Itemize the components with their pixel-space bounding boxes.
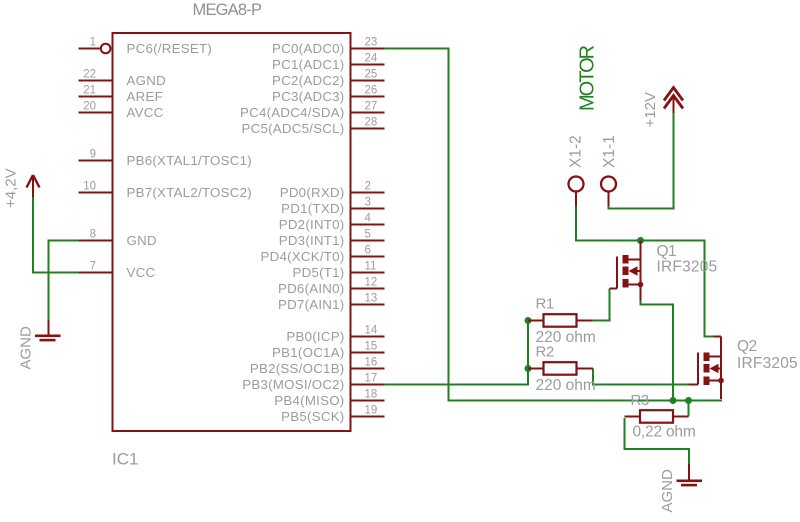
- svg-text:VCC: VCC: [127, 265, 156, 280]
- svg-text:PC4(ADC4/SDA): PC4(ADC4/SDA): [240, 105, 344, 120]
- svg-text:+4,2V: +4,2V: [3, 168, 20, 208]
- svg-text:24: 24: [365, 53, 378, 65]
- svg-text:PC3(ADC3): PC3(ADC3): [272, 89, 344, 104]
- svg-text:PD5(T1): PD5(T1): [293, 265, 345, 280]
- svg-text:0,22 ohm: 0,22 ohm: [633, 424, 696, 441]
- svg-text:15: 15: [365, 341, 378, 353]
- svg-text:12: 12: [365, 277, 378, 289]
- svg-text:R2: R2: [536, 344, 554, 361]
- svg-text:3: 3: [365, 197, 371, 209]
- svg-text:11: 11: [365, 261, 377, 273]
- svg-text:PC6(/RESET): PC6(/RESET): [127, 41, 213, 56]
- svg-text:GND: GND: [127, 233, 157, 248]
- svg-text:AGND: AGND: [127, 73, 166, 88]
- svg-text:+12V: +12V: [642, 92, 659, 127]
- svg-text:R3: R3: [631, 392, 649, 409]
- svg-text:X1-2: X1-2: [568, 135, 585, 168]
- svg-text:27: 27: [365, 101, 378, 113]
- svg-text:PD0(RXD): PD0(RXD): [280, 185, 345, 200]
- svg-text:PD2(INT0): PD2(INT0): [279, 217, 345, 232]
- svg-text:220 ohm: 220 ohm: [536, 377, 596, 394]
- svg-text:4: 4: [365, 213, 372, 225]
- svg-text:AREF: AREF: [127, 89, 163, 104]
- svg-text:13: 13: [365, 293, 378, 305]
- svg-text:6: 6: [365, 245, 371, 257]
- svg-text:28: 28: [365, 117, 378, 129]
- svg-text:10: 10: [83, 181, 96, 193]
- svg-text:7: 7: [90, 261, 96, 273]
- svg-text:18: 18: [365, 389, 378, 401]
- svg-text:16: 16: [365, 357, 378, 369]
- svg-text:MEGA8-P: MEGA8-P: [193, 1, 262, 19]
- svg-text:X1-1: X1-1: [601, 135, 618, 168]
- svg-text:21: 21: [83, 85, 96, 97]
- svg-text:MOTOR: MOTOR: [577, 45, 599, 111]
- svg-text:IC1: IC1: [112, 450, 138, 469]
- svg-text:PB7(XTAL2/TOSC2): PB7(XTAL2/TOSC2): [127, 185, 252, 200]
- svg-text:PB2(SS/OC1B): PB2(SS/OC1B): [250, 361, 345, 376]
- svg-text:PC2(ADC2): PC2(ADC2): [272, 73, 344, 88]
- svg-text:5: 5: [365, 229, 371, 241]
- svg-text:PD1(TXD): PD1(TXD): [281, 201, 344, 216]
- svg-text:AGND: AGND: [659, 469, 676, 513]
- svg-text:IRF3205: IRF3205: [737, 355, 798, 372]
- svg-text:14: 14: [365, 325, 378, 337]
- svg-text:PD3(INT1): PD3(INT1): [279, 233, 345, 248]
- svg-text:25: 25: [365, 69, 378, 81]
- svg-text:PD6(AIN0): PD6(AIN0): [278, 281, 345, 296]
- svg-text:AVCC: AVCC: [127, 105, 164, 120]
- svg-text:PC0(ADC0): PC0(ADC0): [272, 41, 344, 56]
- svg-text:PC1(ADC1): PC1(ADC1): [272, 57, 344, 72]
- svg-text:PB5(SCK): PB5(SCK): [281, 409, 344, 424]
- svg-text:PB0(ICP): PB0(ICP): [286, 329, 344, 344]
- svg-text:17: 17: [365, 373, 378, 385]
- svg-text:26: 26: [365, 85, 378, 97]
- svg-text:Q2: Q2: [737, 338, 757, 355]
- svg-text:22: 22: [83, 69, 96, 81]
- svg-text:PB6(XTAL1/TOSC1): PB6(XTAL1/TOSC1): [127, 153, 252, 168]
- svg-text:PD4(XCK/T0): PD4(XCK/T0): [260, 249, 344, 264]
- svg-text:2: 2: [365, 181, 371, 193]
- svg-text:Q1: Q1: [657, 243, 677, 260]
- svg-text:PC5(ADC5/SCL): PC5(ADC5/SCL): [241, 121, 344, 136]
- svg-text:20: 20: [83, 101, 96, 113]
- svg-text:PB1(OC1A): PB1(OC1A): [272, 345, 344, 360]
- svg-text:8: 8: [90, 229, 96, 241]
- svg-text:PD7(AIN1): PD7(AIN1): [278, 297, 345, 312]
- svg-text:PB4(MISO): PB4(MISO): [274, 393, 344, 408]
- svg-text:23: 23: [365, 37, 378, 49]
- svg-text:R1: R1: [536, 296, 554, 313]
- svg-text:IRF3205: IRF3205: [657, 259, 718, 276]
- svg-text:AGND: AGND: [18, 326, 35, 370]
- svg-text:1: 1: [90, 37, 96, 49]
- svg-text:PB3(MOSI/OC2): PB3(MOSI/OC2): [242, 377, 344, 392]
- svg-text:9: 9: [90, 149, 96, 161]
- svg-text:19: 19: [365, 405, 378, 417]
